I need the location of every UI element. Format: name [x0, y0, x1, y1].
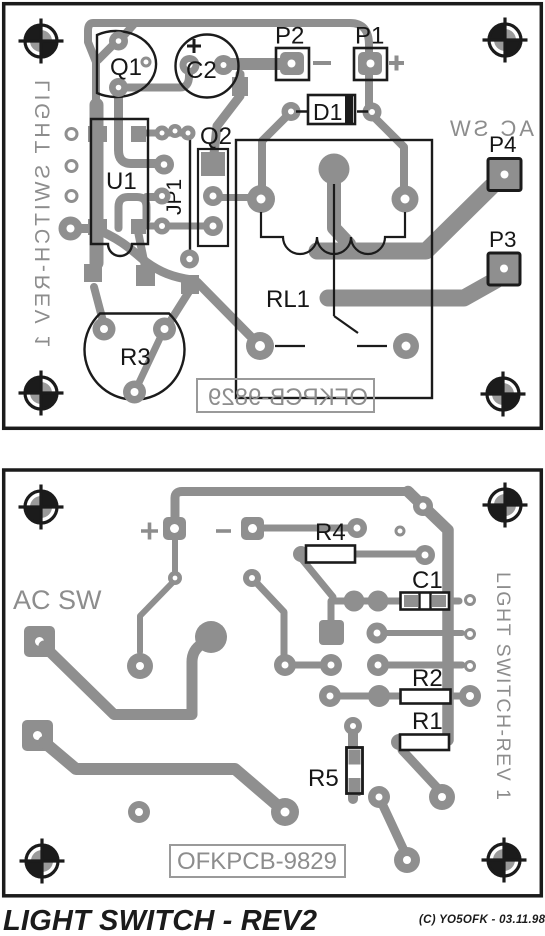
- wire U1 square pad to R3 wiper: [138, 231, 145, 268]
- svg-text:R3: R3: [120, 344, 151, 371]
- capacitor C2: [176, 35, 239, 98]
- wire U1 pin1 row: [146, 130, 188, 137]
- svg-text:Q1: Q1: [110, 54, 142, 81]
- svg-text:P2: P2: [275, 23, 304, 50]
- node vias left of U1: [66, 129, 77, 140]
- wire U1 interior arch: [119, 197, 162, 228]
- wire R3 left pad to square pad: [94, 287, 104, 325]
- pad U1 top-left square: [88, 126, 107, 142]
- pad on top bus elbow: [413, 496, 433, 516]
- wire relay coil left to Q2: [216, 194, 259, 201]
- wire R5 bottom diag: [379, 797, 407, 857]
- wire row y=665: [285, 662, 462, 669]
- fiducial board1 top-left: [19, 19, 64, 64]
- pad minus: [241, 517, 264, 540]
- wire C1 left net: [331, 601, 400, 622]
- svg-text:(C) YO5OFK - 03.11.98: (C) YO5OFK - 03.11.98: [419, 914, 545, 926]
- pad big round: [195, 621, 227, 653]
- svg-text:AC SW: AC SW: [450, 116, 534, 141]
- wire C2 plus to P2: [225, 58, 290, 70]
- svg-text:R5: R5: [308, 765, 339, 792]
- svg-text:RL1: RL1: [266, 286, 310, 313]
- fiducial board1 bottom-left: [19, 371, 64, 416]
- node via left bottom: [128, 801, 150, 823]
- node via beside Q1: [142, 58, 150, 66]
- fiducial board1 bottom-right: [481, 372, 526, 417]
- svg-text:LIGHT SWITCH - REV2: LIGHT SWITCH - REV2: [3, 905, 317, 936]
- wire square pad to Q2 collector: [214, 74, 240, 154]
- svg-text:OFKPCB-9829: OFKPCB-9829: [208, 384, 368, 411]
- node square pad under C2-P2 trace: [232, 77, 248, 96]
- wire U1 bottom row to Q2: [146, 223, 212, 230]
- wire relay NO contact to JP1 pad: [197, 282, 258, 344]
- svg-text:U1: U1: [106, 168, 137, 195]
- pad above R4: [347, 518, 367, 538]
- pad JP1 bottom square: [181, 275, 199, 294]
- svg-text:P3: P3: [489, 227, 517, 252]
- wire D1 cathode down to relay coil right: [372, 115, 404, 196]
- node via top right small: [396, 527, 404, 535]
- svg-text:LIGHT SWITCH-REV 1: LIGHT SWITCH-REV 1: [32, 80, 55, 347]
- wire D1 anode down to relay coil left: [262, 114, 289, 197]
- node AC SW square pad 1: [24, 626, 55, 657]
- node square pad bottom of vertical: [84, 264, 102, 282]
- fiducial board2 bottom-left: [20, 839, 65, 884]
- node OFKPCB-9829 label: [170, 845, 345, 877]
- svg-text:AC SW: AC SW: [13, 585, 102, 615]
- relay RL1: [236, 140, 432, 398]
- wire plus pad chain down: [140, 532, 175, 652]
- svg-text:R1: R1: [412, 708, 443, 735]
- fiducial board2 top-right: [483, 483, 528, 528]
- svg-text:Q2: Q2: [200, 123, 232, 150]
- fiducial board1 top-right: [483, 18, 528, 63]
- jumper JP1: [189, 133, 191, 259]
- wire U1 pin to JP1 square pad: [70, 229, 192, 281]
- svg-text:C2: C2: [186, 57, 217, 84]
- IC U1: [91, 119, 148, 256]
- fiducial board2 top-left: [19, 485, 64, 530]
- svg-text:R4: R4: [315, 519, 346, 546]
- resistor R5: [344, 717, 362, 735]
- node square pad under C1 net: [319, 620, 344, 645]
- node mirrored OFKPCB-9829 label: [197, 379, 374, 412]
- pad U1 bottom-left square: [88, 219, 107, 235]
- pad left mid: [127, 653, 153, 679]
- node via under plus pad: [168, 571, 182, 585]
- wire relay common to P4 band: [334, 178, 349, 244]
- pad U1 left: [59, 217, 83, 241]
- pad U1 top-right square: [131, 126, 146, 142]
- svg-text:C1: C1: [412, 567, 443, 594]
- potentiometer R3: [85, 314, 185, 400]
- svg-text:D1: D1: [313, 99, 342, 125]
- node AC SW square pad 2: [22, 720, 53, 751]
- wire minus pad to R4 area: [252, 525, 352, 532]
- node vias right column: [466, 596, 475, 605]
- svg-text:P1: P1: [355, 23, 384, 50]
- wire top bus from left edge to P1: [88, 23, 135, 110]
- board 1 outline: [4, 4, 542, 429]
- svg-text:R2: R2: [412, 665, 443, 692]
- diode D1: [282, 102, 301, 121]
- pad plus: [163, 517, 186, 540]
- wire board2 top bus: [175, 492, 410, 527]
- fiducial board2 bottom-right: [482, 838, 527, 883]
- board 2 outline: [4, 470, 542, 896]
- pad U1 bottom-right square: [131, 219, 146, 234]
- wire R3 bottom to right pad: [136, 336, 161, 389]
- svg-text:LIGHT SWITCH-REV 1: LIGHT SWITCH-REV 1: [492, 572, 514, 800]
- wire JP1 square to R3 right pad: [166, 290, 190, 328]
- wire thick vertical Q1-emitter to square pad: [90, 105, 104, 263]
- wire AC SW pad to big pad: [44, 644, 202, 715]
- node square pad below U1: [136, 265, 155, 286]
- wire row y=633: [377, 630, 462, 636]
- transistor Q1: [97, 31, 156, 97]
- wire R2 branch: [448, 693, 462, 700]
- wire AC SW pad2 long trace: [44, 742, 285, 812]
- svg-text:OFKPCB-9829: OFKPCB-9829: [177, 848, 337, 875]
- wire pad 252,578 diagonal to 285,665: [252, 578, 284, 660]
- wire Q1 base into U1 to pin pad: [119, 92, 162, 164]
- wire P3 band: [328, 280, 496, 298]
- wire Q1 base to C2 minus: [119, 66, 189, 88]
